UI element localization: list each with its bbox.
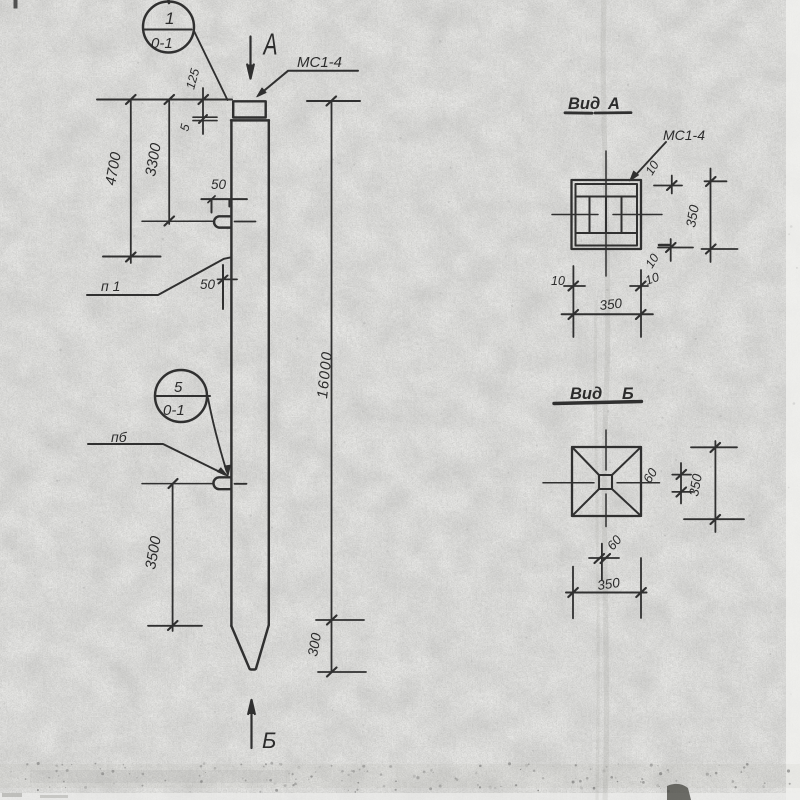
svg-text:0-1: 0-1 — [151, 35, 173, 52]
balloon callout 1/0-1 circle — [143, 2, 194, 53]
extension line at tip level — [318, 671, 366, 673]
shaft top line — [231, 119, 269, 121]
pile shaft left edge — [230, 120, 232, 626]
dim 350 right top slash (vid B) — [711, 443, 721, 452]
dim 60 right bottom slash — [677, 488, 687, 497]
Vid B square — [572, 447, 641, 516]
dimension 3500 vertical line — [172, 484, 174, 631]
tick at 300 top — [327, 616, 337, 625]
extension line at y=256.5 — [103, 256, 161, 258]
mesh vertical bar 2 — [621, 197, 623, 234]
tick at 4700 extension top — [126, 95, 136, 104]
arrowhead MC1-4 right — [630, 171, 639, 181]
tick for 5-dim upper dash — [193, 116, 217, 118]
dim 60 bottom horizontal — [589, 557, 619, 559]
extension line at taper right — [316, 619, 364, 621]
loop PB centerline left — [142, 483, 214, 485]
svg-text:5: 5 — [174, 379, 183, 396]
loop PB centerline right dash — [235, 483, 247, 485]
dimension 16000 vertical line — [331, 101, 333, 672]
top dimension line — [97, 99, 232, 101]
bottom 10 left horizontal — [564, 285, 585, 287]
view arrow A head — [247, 65, 254, 79]
dim 10 top-right horizontal — [654, 185, 682, 187]
svg-text:50: 50 — [200, 277, 216, 292]
pile shaft right edge — [268, 120, 270, 625]
lifting loop P1 — [214, 216, 231, 227]
svg-text:350: 350 — [596, 575, 621, 593]
balloon 2 divider line — [155, 395, 210, 397]
bottom 350 dim line (vid B) — [566, 592, 647, 594]
svg-text:Б: Б — [262, 728, 276, 753]
dim 350 right bottom tee (vid B) — [684, 518, 744, 520]
dimension 4700 vertical line — [130, 100, 132, 264]
label PB leader — [88, 444, 225, 475]
leader line of MC1-4 top label — [260, 71, 359, 95]
50-dim extension stroke left — [211, 200, 213, 213]
bottom 10 left slash — [569, 282, 579, 291]
svg-text:Б: Б — [622, 385, 634, 403]
Vid B diagonal TR — [612, 447, 641, 475]
Vid B small center square — [599, 475, 612, 489]
arrowhead of MC1-4 leader — [257, 88, 266, 97]
tick at 16000 top end — [327, 97, 337, 106]
dim 10 bottom-right slash — [666, 243, 676, 252]
dim 10 top-right vertical — [671, 176, 673, 194]
tick at 3300 extension top — [165, 95, 175, 104]
Vid B diagonal BR — [612, 489, 641, 516]
slash at 5-dim — [199, 115, 207, 123]
dim 60 bottom slash 1 — [595, 554, 605, 563]
Vid B centerline horizontal — [543, 482, 660, 484]
Vid B diagonal BL — [572, 489, 599, 516]
bottom 10 right slash — [636, 282, 646, 291]
dim 10 bottom-right horizontal — [658, 247, 693, 249]
dim 60 right vertical — [680, 463, 682, 504]
svg-text:п 1: п 1 — [101, 278, 120, 294]
dim 60 right top dash — [672, 474, 691, 476]
balloon 1 divider line — [143, 29, 192, 31]
dim 350 right bottom slash — [706, 245, 716, 254]
scan fold streak — [603, 0, 608, 800]
bottom ext line right x641 — [640, 270, 642, 337]
lifting loop PB — [213, 477, 231, 489]
top dimension line right segment to 16000 line — [307, 100, 360, 102]
mesh vertical bar center — [605, 197, 607, 234]
dimension 3300 vertical line — [168, 100, 170, 225]
cross target horizontal — [218, 278, 238, 280]
dim 350 right top tee — [705, 180, 727, 182]
leader MC1-4 right — [632, 142, 666, 179]
dim 60 bottom vertical — [601, 544, 603, 580]
bottom 350 slash left (vid B) — [568, 588, 578, 597]
svg-text:МС1-4: МС1-4 — [297, 54, 342, 71]
dim 10 top-right slash — [667, 181, 677, 190]
leader from balloon 1 to pile head — [194, 30, 228, 100]
dimension 125 vertical line — [202, 88, 204, 134]
cross target 50-dim at P1 level: vertical — [222, 265, 224, 309]
pile cap (mesh MC1-4) outline — [233, 101, 266, 117]
bottom 350 dim line — [562, 313, 653, 315]
bottom 350 ext line right (vid B) — [640, 558, 642, 618]
bottom 350 slash left — [569, 310, 579, 319]
cross target slash — [219, 276, 228, 284]
dim 60 bottom slash 2 — [601, 554, 611, 563]
Vid A centerline horizontal — [552, 214, 662, 216]
svg-text:МС1-4: МС1-4 — [663, 127, 705, 143]
tick at 16000/300 bottom — [327, 668, 337, 677]
svg-text:Вид: Вид — [568, 95, 600, 113]
dim 350 right bottom slash (vid B) — [711, 515, 721, 524]
label P1 leader — [87, 257, 231, 295]
balloon 1 top tick — [167, 0, 170, 3]
white page margins — [786, 0, 800, 800]
leader from balloon 2 to loop PB — [208, 398, 227, 471]
bottom 10 right horizontal — [630, 285, 648, 287]
mesh vertical bar 1 — [589, 197, 591, 233]
dimension 50 line above loop P1 — [201, 198, 247, 200]
extension line at taper level — [148, 625, 202, 627]
title underline Vid A — [565, 111, 631, 114]
arrowhead balloon2 leader — [224, 465, 230, 476]
tick at 3500 bottom — [168, 621, 178, 630]
Vid A outer square — [572, 180, 642, 249]
dim 60 right top slash — [677, 470, 687, 479]
svg-text:1: 1 — [165, 9, 174, 28]
bottom ext line left x573 — [572, 266, 574, 337]
svg-text:0-1: 0-1 — [163, 402, 185, 419]
view arrow B head — [248, 700, 255, 714]
Vid B centerline vertical — [605, 430, 607, 527]
dim 10 bottom-right vertical — [670, 239, 672, 261]
title underline Vid B — [554, 402, 642, 404]
Vid B diagonal TL — [572, 447, 599, 475]
svg-text:А: А — [262, 26, 278, 61]
svg-text:10: 10 — [551, 274, 565, 288]
view arrow A shaft — [249, 37, 251, 79]
dim 350 right bottom tee — [702, 248, 738, 250]
svg-text:пб: пб — [111, 429, 128, 445]
pile tip taper — [231, 625, 268, 670]
loop P1 centerline right dash — [235, 221, 256, 223]
Vid A centerline vertical — [605, 151, 607, 276]
tick at 3300 bottom — [165, 217, 175, 226]
scan edge mark top-left — [14, 0, 18, 9]
dim 350 right vertical (vid B) — [714, 441, 716, 532]
dim 60 right bottom dash — [672, 491, 692, 493]
dim 350 right vertical — [710, 169, 712, 263]
dim 350 right top slash — [706, 177, 716, 186]
bottom 350 slash right (vid B) — [636, 588, 646, 597]
tick at 3500 extension top — [169, 479, 178, 488]
view arrow B shaft — [250, 700, 252, 748]
balloon callout 5/0-1 circle — [155, 370, 207, 422]
svg-text:50: 50 — [211, 177, 227, 192]
tick at 4700 bottom — [126, 253, 136, 262]
svg-text:Вид: Вид — [570, 385, 602, 403]
50-dim small slash — [208, 196, 215, 203]
svg-text:350: 350 — [599, 296, 623, 313]
mesh horizontal top — [576, 196, 638, 198]
dim 10 bottom-right heavy dash — [659, 244, 670, 247]
50-dim extension stroke right — [228, 200, 230, 207]
arrowhead PB leader — [218, 468, 229, 477]
mesh horizontal bottom — [576, 232, 638, 234]
svg-text:А: А — [607, 95, 620, 113]
tick for 5-dim lower dash — [193, 120, 217, 122]
bottom 350 ext line left (vid B) — [572, 567, 574, 619]
scan blob bottom-right — [0, 764, 800, 788]
loop P1 centerline left — [142, 220, 213, 222]
bottom 350 slash right — [636, 310, 646, 319]
dim 350 right top tee (vid B) — [691, 446, 737, 448]
Vid A inner square — [576, 184, 638, 246]
tick at 125 extension top — [199, 95, 209, 104]
